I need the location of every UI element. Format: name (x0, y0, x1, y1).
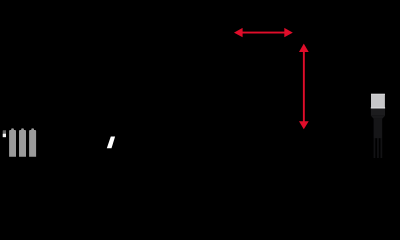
radiator valve white body (3, 134, 6, 137)
radiator bar 3 cap (31, 128, 34, 131)
radiator bar 3 (29, 130, 36, 157)
sensor upper dark block (371, 109, 385, 116)
vertical distance arrow shaft (303, 51, 305, 122)
radiator bar 1 (9, 130, 16, 157)
radiator bar 1 cap (11, 128, 14, 131)
vertical arrow top head (299, 44, 309, 52)
horizontal arrow right head (284, 28, 293, 37)
white slash highlight (107, 137, 115, 149)
vertical arrow bottom head (299, 121, 309, 129)
sensor prong 2 (377, 138, 379, 158)
sensor head top rim (371, 94, 385, 95)
sensor taper shoulders (371, 116, 385, 119)
radiator bar 2 (19, 130, 26, 157)
sensor stem (374, 119, 383, 139)
sensor head grey square (371, 94, 385, 109)
horizontal arrow left head (234, 28, 243, 37)
radiator valve striped top (3, 131, 6, 134)
radiator bar 2 cap (21, 128, 24, 131)
sensor prong 3 (381, 138, 383, 158)
horizontal distance arrow shaft (242, 32, 286, 34)
sensor prong 1 (374, 138, 376, 158)
sensor head bottom light strip (371, 107, 385, 108)
